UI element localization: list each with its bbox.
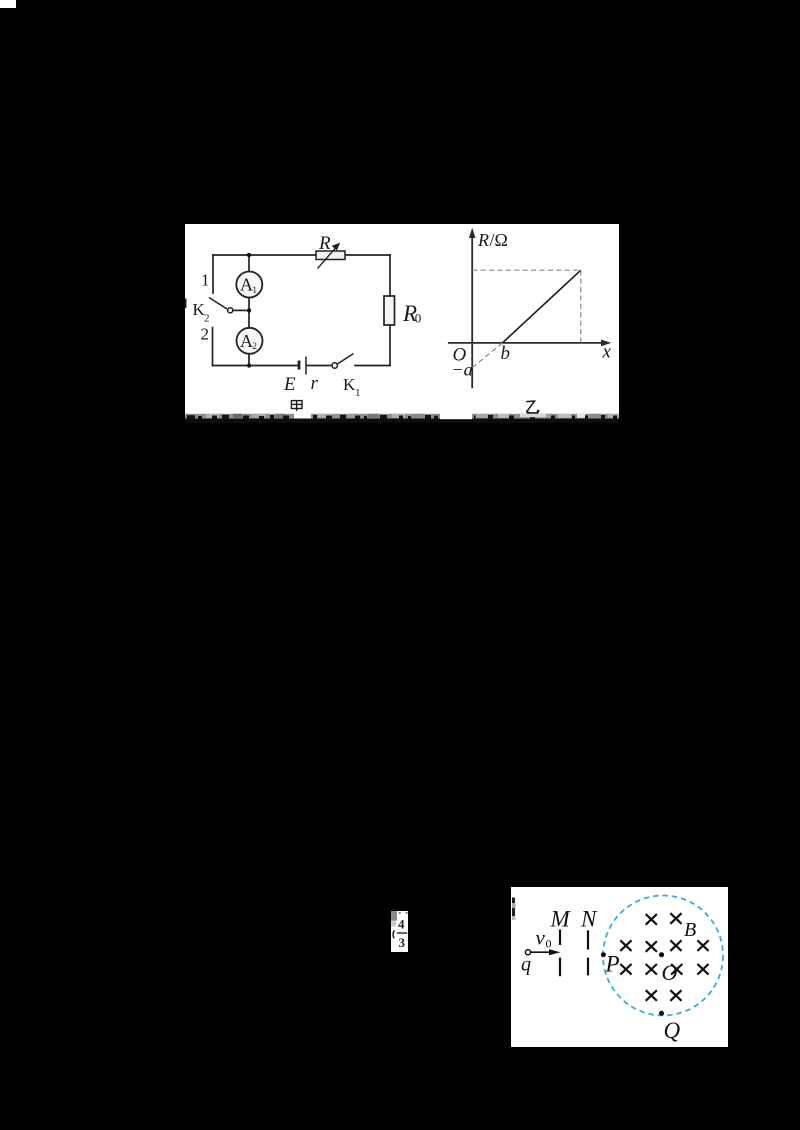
svg-text:N: N (580, 907, 598, 932)
svg-text:q: q (521, 954, 531, 976)
svg-text:1: 1 (201, 271, 210, 290)
svg-text:R: R (318, 233, 331, 254)
svg-text:v: v (536, 926, 546, 950)
svg-text:x: x (602, 342, 612, 363)
svg-text:A: A (240, 275, 253, 295)
svg-text:O: O (662, 960, 678, 985)
svg-text:4: 4 (398, 916, 405, 931)
svg-text:B: B (684, 919, 696, 941)
svg-text:2: 2 (252, 342, 257, 352)
svg-text:1: 1 (355, 387, 361, 399)
svg-text:R: R (477, 230, 489, 250)
svg-text:M: M (550, 907, 572, 932)
svg-text:E: E (283, 374, 296, 395)
svg-text:0: 0 (546, 937, 552, 951)
svg-text:/Ω: /Ω (490, 230, 508, 250)
svg-text:−a: −a (452, 360, 473, 380)
svg-text:2: 2 (201, 325, 210, 344)
svg-text:0: 0 (415, 311, 422, 326)
svg-text:b: b (501, 343, 511, 364)
svg-text:1: 1 (252, 286, 257, 296)
svg-text:P: P (605, 952, 620, 977)
svg-text:3: 3 (399, 935, 406, 950)
svg-text:A: A (240, 331, 253, 351)
svg-text:Q: Q (664, 1018, 681, 1043)
svg-text:r: r (311, 373, 319, 394)
svg-text:2: 2 (204, 313, 210, 325)
